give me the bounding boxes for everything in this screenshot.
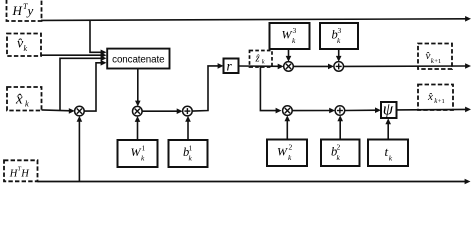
adder P3: [335, 106, 345, 116]
weight box W_k^2: [267, 140, 307, 167]
multiplier X1: [75, 106, 85, 116]
multiplier X3: [284, 62, 294, 72]
latent box z_k: [250, 51, 273, 68]
svg-text:k: k: [262, 59, 265, 66]
weight box W_k^1: [118, 140, 158, 167]
svg-text:concatenate: concatenate: [112, 54, 165, 65]
adder P2: [334, 62, 344, 72]
wire: X3 to adder P2: [293, 64, 334, 70]
svg-text:+1: +1: [438, 98, 445, 105]
svg-text:x̂: x̂: [427, 91, 433, 103]
wire: x_k branch up into concatenate: [60, 56, 107, 111]
wire: W_k^1 up into X2: [135, 116, 141, 140]
bottom rail wire from H^T H: [38, 179, 471, 185]
wire: W_k^2 up into X4: [285, 115, 291, 139]
svg-text:k: k: [25, 99, 29, 109]
output box x_{k+1}: [418, 85, 453, 111]
svg-text:k: k: [24, 44, 28, 53]
activation box psi: [381, 100, 397, 119]
svg-text:3: 3: [338, 26, 342, 35]
wire: t_k up into psi: [385, 118, 391, 139]
input box v_k: [7, 34, 41, 57]
wire: z branch down to multiplier X4: [260, 66, 281, 113]
svg-text:H: H: [12, 3, 23, 18]
svg-text:2: 2: [289, 143, 293, 152]
svg-text:W: W: [282, 28, 293, 42]
wire: concatenate output down into X2: [135, 69, 141, 107]
wire: b_k^1 up into P1: [185, 116, 191, 140]
svg-text:1: 1: [142, 144, 146, 153]
weight box W_k^3: [270, 23, 310, 49]
concatenate box: [107, 49, 169, 69]
bias box b_k^1: [169, 140, 208, 167]
multiplier X4: [283, 106, 293, 116]
svg-text:3: 3: [293, 26, 297, 35]
wire: W_k^3 down into X3: [286, 49, 292, 62]
wire: H^T y drop into concatenate: [90, 20, 107, 55]
wire: v_k into concatenate: [41, 52, 107, 58]
wire: X4 to adder P3: [292, 108, 335, 114]
svg-text:2: 2: [337, 143, 341, 152]
wire: r to multiplier X3: [239, 64, 284, 70]
wire: x_k into multiplier X1: [42, 108, 75, 114]
wire: psi to x_{k+1} output arrow: [397, 107, 472, 113]
activation box r: [224, 59, 239, 74]
svg-text:W: W: [131, 145, 142, 159]
wire: X2 to adder P1: [142, 108, 183, 114]
svg-text:W: W: [277, 145, 288, 159]
svg-text:1: 1: [189, 144, 193, 153]
bias box b_k^2: [321, 140, 360, 167]
wire: P2 to v_{k+1} output arrow: [344, 63, 472, 69]
svg-text:H: H: [20, 169, 30, 180]
input box H^T y: [7, 0, 42, 21]
svg-text:v̂: v̂: [425, 50, 430, 62]
svg-text:ψ: ψ: [383, 100, 394, 119]
wire: b_k^3 down into P2: [336, 49, 342, 62]
wire: P3 to psi box: [345, 107, 381, 113]
wire: rail up into multiplier X1: [77, 116, 83, 182]
wire: P1 up into r box: [192, 63, 223, 111]
bias box b_k^3: [320, 23, 358, 49]
wire: X1 output up into concatenate: [84, 60, 107, 111]
wire: H^T y output top rail: [41, 16, 471, 22]
multiplier X2: [133, 106, 143, 116]
svg-text:y: y: [26, 3, 34, 18]
output box v_{k+1}: [418, 44, 452, 70]
adder P1: [183, 106, 193, 116]
input box H^T H: [4, 160, 38, 181]
input box x_k: [7, 87, 42, 111]
svg-text:+1: +1: [434, 58, 441, 65]
svg-text:x̂: x̂: [15, 92, 23, 108]
svg-text:r: r: [227, 59, 233, 74]
wire: b_k^2 up into P3: [337, 115, 343, 139]
bias box t_k: [368, 140, 408, 167]
